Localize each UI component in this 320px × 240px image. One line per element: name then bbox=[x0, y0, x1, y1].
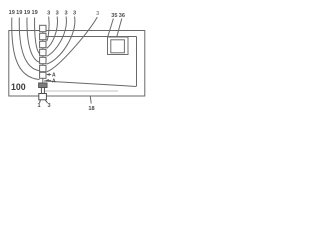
svg-text:3: 3 bbox=[73, 11, 76, 17]
svg-text:35: 35 bbox=[111, 13, 117, 19]
pad outer 35 bbox=[108, 37, 129, 55]
dark bottom square bbox=[39, 83, 47, 88]
pedestal bbox=[39, 88, 48, 104]
svg-text:18: 18 bbox=[88, 106, 94, 112]
outer box 100 bbox=[9, 31, 145, 97]
inner region right edge bbox=[136, 37, 138, 87]
svg-text:19: 19 bbox=[16, 10, 22, 16]
svg-text:3: 3 bbox=[47, 11, 50, 17]
svg-text:19: 19 bbox=[9, 10, 15, 16]
inner region top wire bbox=[47, 36, 137, 38]
svg-text:3: 3 bbox=[65, 11, 68, 17]
svg-text:1: 1 bbox=[37, 103, 40, 109]
svg-text:100: 100 bbox=[11, 82, 26, 92]
svg-text:3: 3 bbox=[56, 11, 59, 17]
left U curves from 19 labels bbox=[12, 18, 40, 80]
right curves from 7 labels bbox=[47, 17, 49, 42]
pad inner 36 bbox=[111, 40, 125, 53]
svg-text:19: 19 bbox=[24, 10, 30, 16]
svg-text:A: A bbox=[52, 79, 56, 85]
svg-text:36: 36 bbox=[119, 13, 125, 19]
leader 36 bbox=[116, 19, 122, 39]
column of squares bbox=[40, 25, 46, 78]
column connectors bbox=[42, 32, 44, 83]
faint middle line bbox=[44, 90, 118, 92]
A arrows bbox=[45, 73, 51, 82]
svg-text:3: 3 bbox=[47, 103, 50, 109]
svg-text:3: 3 bbox=[96, 11, 99, 17]
inner region bottom bbox=[44, 81, 137, 87]
leader 35 bbox=[108, 19, 114, 37]
leader 18 bbox=[89, 96, 92, 103]
svg-text:19: 19 bbox=[31, 10, 37, 16]
labels bbox=[9, 10, 125, 112]
